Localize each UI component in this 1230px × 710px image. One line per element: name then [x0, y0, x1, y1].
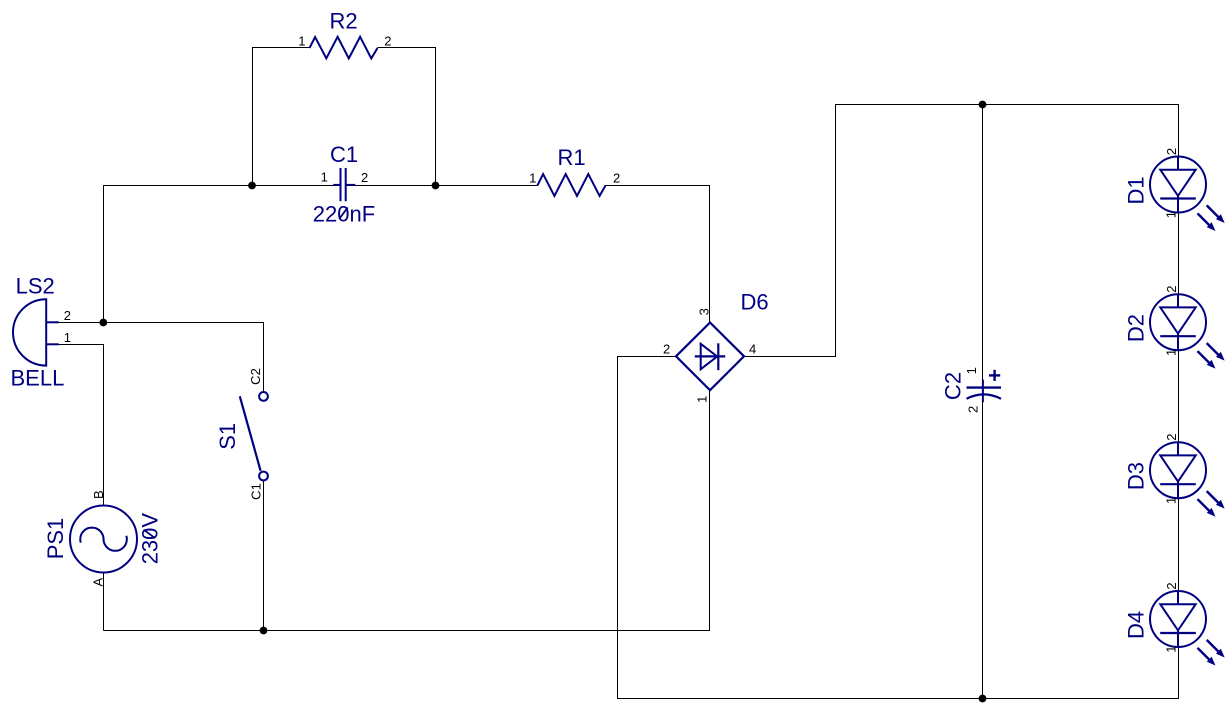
electrolytic capacitor C2 — [941, 367, 1002, 413]
wire bell pin2 to switch — [59, 322, 265, 324]
junction bell pin2 node — [99, 319, 107, 327]
svg-text:C2: C2 — [941, 372, 966, 400]
svg-text:C1: C1 — [330, 142, 358, 167]
bridge rectifier D6 — [663, 289, 769, 403]
svg-text:A: A — [91, 578, 106, 587]
wire down left of D6 to bottom rail — [617, 357, 619, 699]
svg-text:PS1: PS1 — [43, 518, 68, 560]
svg-text:1: 1 — [964, 367, 979, 374]
svg-text:D3: D3 — [1124, 462, 1149, 490]
wire up from D6 pin4 — [835, 104, 837, 357]
AC power source PS1 230V — [43, 490, 163, 586]
wire top rail to LEDs — [835, 104, 1179, 106]
svg-text:3: 3 — [697, 308, 712, 315]
wire C2 bottom — [982, 399, 984, 699]
svg-text:B: B — [91, 490, 106, 499]
value 230V — [138, 513, 163, 565]
svg-text:2: 2 — [384, 34, 391, 49]
svg-text:1: 1 — [529, 171, 536, 186]
junction switch to bottom net — [260, 627, 268, 635]
svg-text:LS2: LS2 — [16, 274, 55, 299]
wire switch terminal C1 down to bottom net — [263, 481, 265, 631]
svg-text:1: 1 — [694, 396, 709, 403]
svg-text:1: 1 — [64, 330, 71, 345]
junction R2/C1 right node — [432, 182, 440, 190]
svg-text:S1: S1 — [215, 423, 240, 450]
wire R2 loop top left — [252, 47, 310, 49]
wire down to switch terminal C2 — [263, 323, 265, 392]
svg-text:C2: C2 — [248, 368, 263, 385]
svg-text:D4: D4 — [1124, 611, 1149, 639]
LED D4 — [1124, 582, 1224, 664]
resistor R2 — [298, 9, 391, 59]
wire PS1 pin A down — [103, 572, 105, 630]
svg-text:4: 4 — [749, 342, 756, 357]
wire main horizontal net left of C1 — [104, 185, 340, 187]
wire D6 pin4 to right — [744, 356, 836, 358]
wire R2 loop left vertical — [252, 48, 254, 186]
svg-text:2: 2 — [64, 308, 71, 323]
LED D1 — [1124, 148, 1224, 230]
loudspeaker LS2 (BELL) — [11, 274, 72, 391]
LED D3 — [1124, 434, 1224, 516]
wire R2 loop right vertical — [435, 48, 437, 186]
svg-text:2: 2 — [966, 406, 981, 413]
svg-text:BELL: BELL — [11, 365, 65, 390]
wire D2 to D3 — [1178, 350, 1180, 443]
wire D6 pin3 vertical — [709, 186, 711, 323]
svg-text:1: 1 — [321, 169, 328, 184]
wire D1 to D2 — [1178, 212, 1180, 294]
wire main horizontal net C1 to R1 — [347, 185, 538, 187]
junction R2/C1 left node — [248, 182, 256, 190]
svg-text:2: 2 — [613, 171, 620, 186]
svg-text:1: 1 — [298, 34, 305, 49]
svg-text:R2: R2 — [329, 9, 357, 34]
wire C2 top — [982, 105, 984, 387]
wire up to D6 pin1 — [709, 391, 711, 631]
svg-text:C1: C1 — [248, 483, 263, 500]
wire D3 to D4 — [1178, 498, 1180, 591]
wire top rail down to D1 — [1178, 105, 1180, 157]
svg-text:D1: D1 — [1124, 176, 1149, 204]
svg-text:230V: 230V — [138, 513, 163, 565]
wire R1 to D6 corner — [606, 185, 711, 187]
wire D6 pin2 to left — [617, 356, 675, 358]
LED D2 — [1124, 286, 1224, 368]
switch S1 — [215, 368, 268, 500]
wire D4 to bottom rail — [1178, 647, 1180, 699]
svg-text:D2: D2 — [1124, 314, 1149, 342]
svg-text:R1: R1 — [557, 145, 585, 170]
wire down to PS1 pin B — [103, 345, 105, 506]
svg-text:D6: D6 — [741, 289, 769, 314]
wire vertical from top-left corner down to bell junction — [103, 185, 105, 323]
svg-text:2: 2 — [663, 342, 670, 357]
svg-text:2: 2 — [361, 170, 368, 185]
junction top rail / C2 — [979, 101, 987, 109]
resistor R1 — [529, 145, 620, 196]
wire bottom net PS1 to D6 pin1 — [104, 630, 711, 632]
wire R2 loop top right — [378, 47, 437, 49]
wire bottom rail to LEDs — [617, 698, 1179, 700]
wire bell pin1 horizontal — [59, 344, 105, 346]
junction bottom rail / C2 — [979, 695, 987, 703]
capacitor C1 220nF — [313, 142, 375, 226]
